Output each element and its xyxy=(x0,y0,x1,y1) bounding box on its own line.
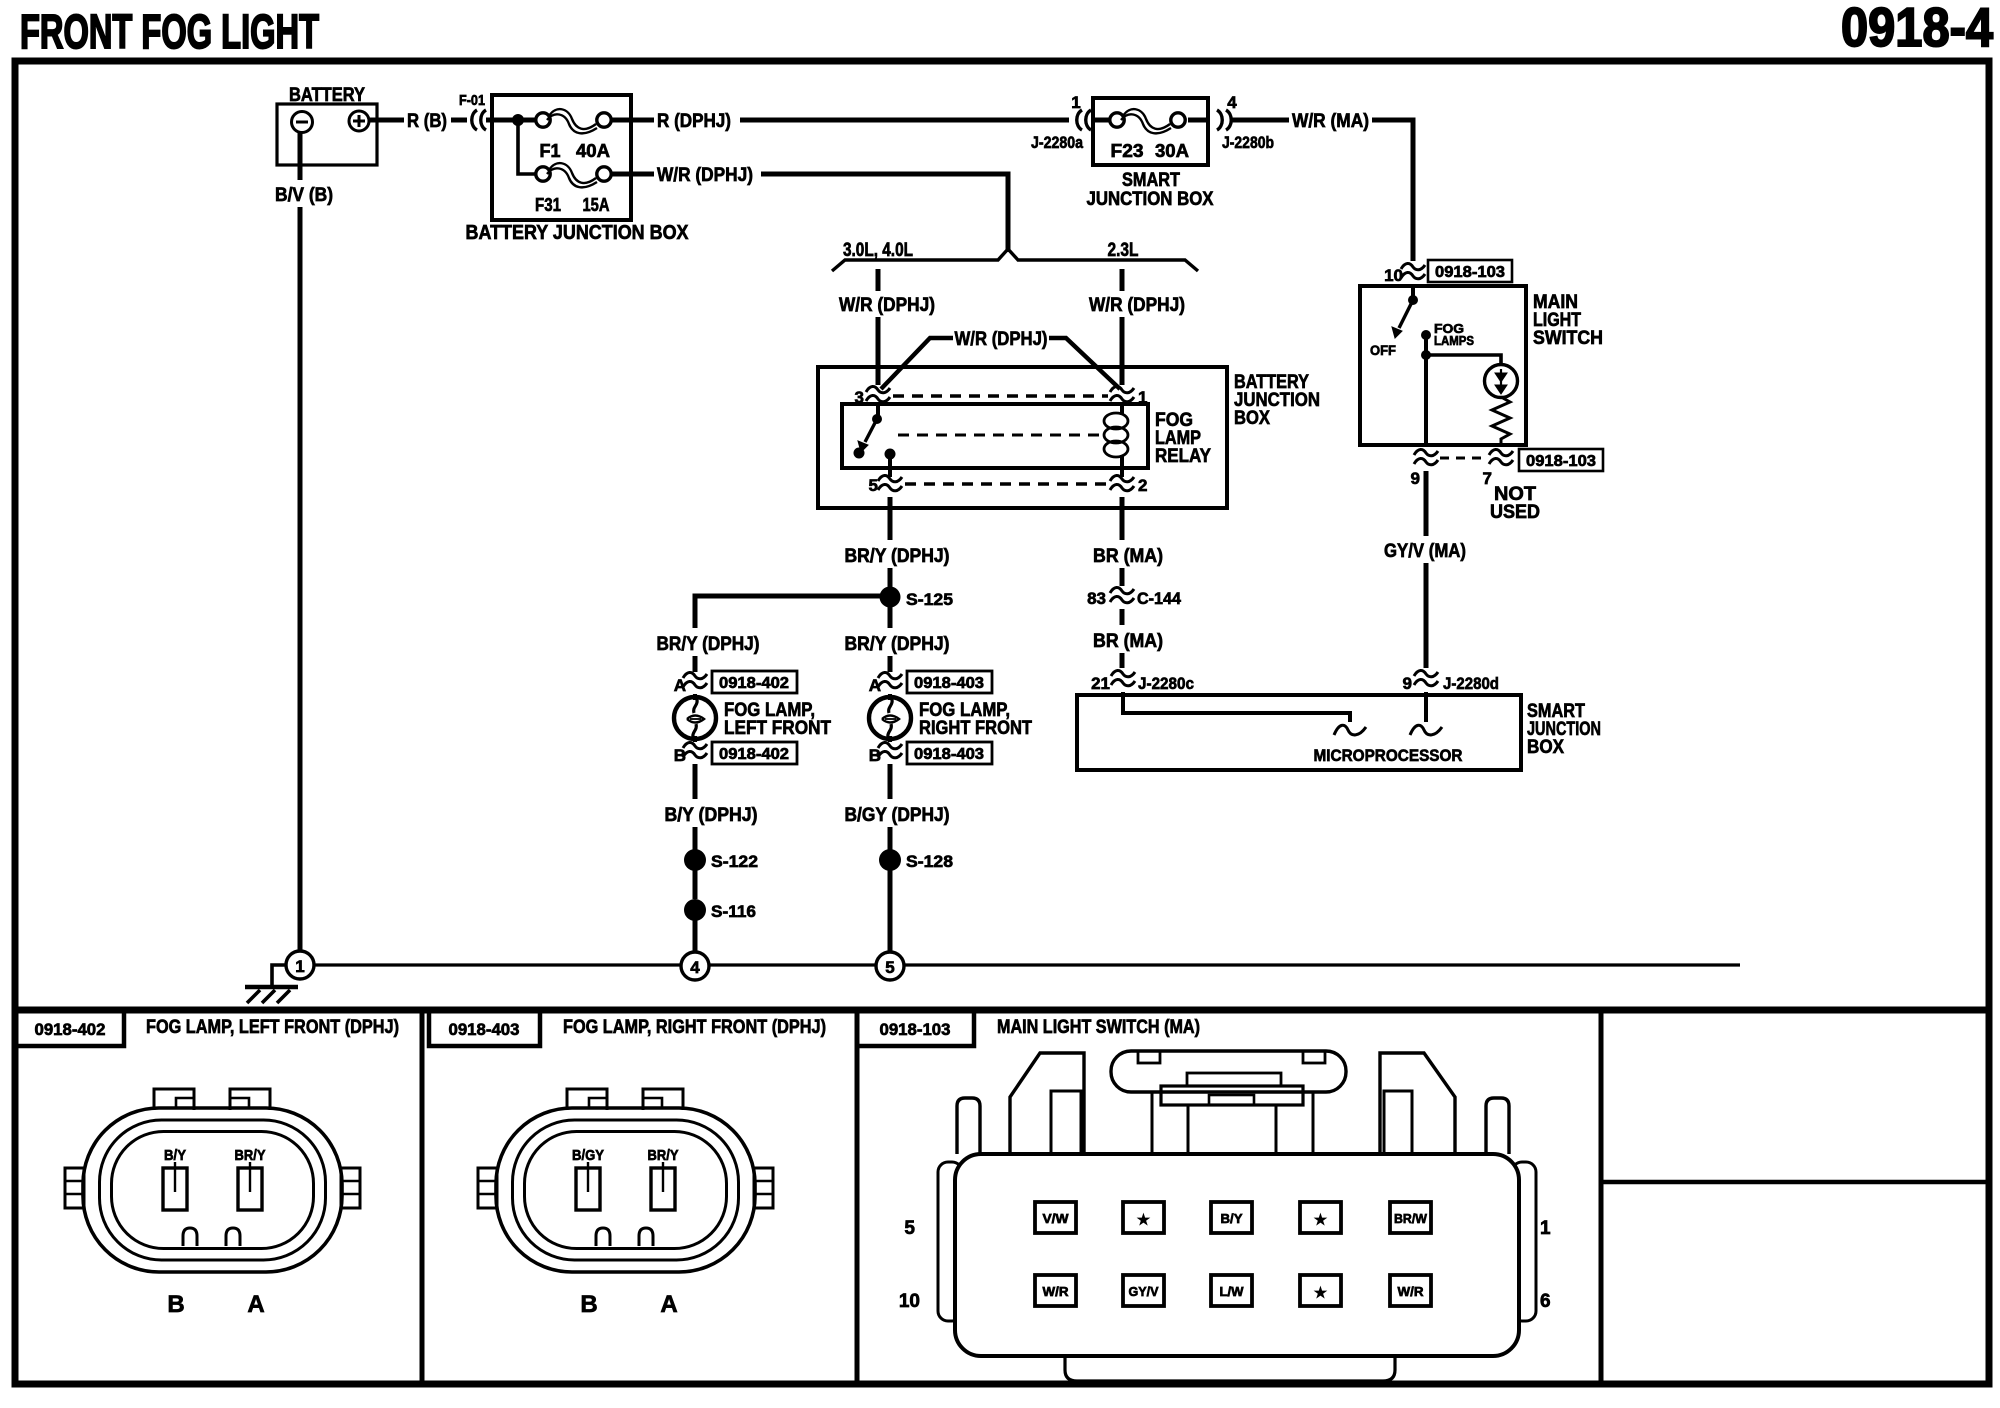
svg-text:0918-403: 0918-403 xyxy=(914,746,984,763)
wire into smart junction box xyxy=(1424,692,1428,722)
section header 0918-103 xyxy=(857,1010,1200,1046)
svg-text:★: ★ xyxy=(1315,1285,1327,1300)
relay pin 5 xyxy=(869,475,902,495)
svg-text:0918-4: 0918-4 xyxy=(1841,0,1993,58)
svg-text:FOG LAMP, RIGHT FRONT (DPHJ): FOG LAMP, RIGHT FRONT (DPHJ) xyxy=(563,1017,826,1038)
wire to S-116 xyxy=(693,870,698,899)
left fog lamp pin B xyxy=(674,742,707,765)
svg-text:5: 5 xyxy=(869,476,878,495)
svg-text:LAMPS: LAMPS xyxy=(1434,333,1474,348)
svg-text:OFF: OFF xyxy=(1370,342,1396,358)
ground node 5 xyxy=(876,952,904,980)
svg-text:BR/Y: BR/Y xyxy=(235,1147,266,1164)
svg-text:★: ★ xyxy=(1138,1212,1150,1227)
microprocessor input curl right xyxy=(1410,725,1442,735)
wire below C-144 xyxy=(1120,609,1125,625)
svg-text:0918-403: 0918-403 xyxy=(449,1020,520,1039)
svg-text:0918-103: 0918-103 xyxy=(1526,453,1596,470)
wire BR (MA) into box routed to microprocessor xyxy=(1123,692,1350,722)
wire 3.0L branch down xyxy=(876,269,881,291)
svg-text:9: 9 xyxy=(1411,469,1420,488)
wire fuse F1 to box edge xyxy=(610,118,654,123)
smart junction box microprocessor xyxy=(1077,695,1601,770)
connector J-2280d pin 9 xyxy=(1403,670,1499,693)
svg-text:A: A xyxy=(660,1291,677,1318)
wire to ground 4 xyxy=(693,920,698,953)
svg-text:S-116: S-116 xyxy=(711,902,756,921)
wire coil to pin 2 xyxy=(1120,455,1124,477)
dashed line pin5 to pin2 xyxy=(905,482,1108,486)
svg-text:BR/Y (DPHJ): BR/Y (DPHJ) xyxy=(845,634,950,655)
svg-text:BOX: BOX xyxy=(1234,408,1270,429)
relay coil xyxy=(1104,413,1128,457)
dashed line pin3 to pin1 xyxy=(893,394,1108,398)
indicator lamp in switch xyxy=(1485,365,1518,398)
svg-text:5: 5 xyxy=(885,958,894,977)
connector fog lamp right front xyxy=(478,1089,773,1272)
wire inside BJB to fuse F1 xyxy=(494,118,536,123)
svg-text:BR/Y: BR/Y xyxy=(648,1147,679,1164)
svg-text:B: B xyxy=(580,1291,597,1318)
wire to left lamp pin A xyxy=(693,656,698,672)
fog lamp relay box xyxy=(842,404,1211,468)
connector F-01 xyxy=(459,92,486,130)
wire 2.3L branch down xyxy=(1120,269,1125,291)
svg-text:10: 10 xyxy=(1384,266,1403,285)
relay pin 2 xyxy=(1110,475,1147,495)
battery junction box xyxy=(466,95,690,244)
battery negative wire down left side xyxy=(298,133,303,180)
connector pin 9 below switch xyxy=(1411,449,1438,488)
svg-text:B/Y: B/Y xyxy=(164,1147,186,1164)
wire pin3 into relay xyxy=(876,406,880,419)
ground node 4 xyxy=(681,952,709,980)
wire R(B) to connector F-01 xyxy=(451,118,467,123)
svg-text:L/W: L/W xyxy=(1220,1284,1245,1299)
svg-text:SWITCH: SWITCH xyxy=(1533,328,1603,349)
svg-text:1: 1 xyxy=(1540,1218,1551,1239)
svg-text:B/GY (DPHJ): B/GY (DPHJ) xyxy=(845,805,950,826)
svg-text:F31: F31 xyxy=(535,195,561,215)
svg-text:BR/W: BR/W xyxy=(1394,1211,1428,1226)
svg-text:4: 4 xyxy=(1227,93,1237,112)
svg-text:40A: 40A xyxy=(576,141,610,161)
svg-text:GY/V (MA): GY/V (MA) xyxy=(1384,541,1466,562)
svg-text:USED: USED xyxy=(1490,502,1540,523)
svg-text:0918-402: 0918-402 xyxy=(35,1020,106,1039)
relay pin 1 xyxy=(1110,386,1147,407)
wire W/R (MA) to main light switch xyxy=(1372,120,1413,261)
svg-text:FOG LAMP, LEFT FRONT (DPHJ): FOG LAMP, LEFT FRONT (DPHJ) xyxy=(146,1017,399,1038)
reference label 0918-402 upper xyxy=(712,671,797,693)
node junction in BJB xyxy=(512,114,524,126)
svg-text:A: A xyxy=(247,1291,264,1318)
wire fuse F31 to box edge xyxy=(610,172,654,177)
battery xyxy=(277,85,377,165)
dashed link pin9 to pin7 xyxy=(1440,457,1487,460)
wire branch to lamp xyxy=(1426,355,1501,364)
svg-text:0918-103: 0918-103 xyxy=(1435,264,1505,281)
main light switch box xyxy=(1360,286,1603,445)
svg-text:6: 6 xyxy=(1540,1291,1551,1312)
svg-text:W/R (DPHJ): W/R (DPHJ) xyxy=(955,329,1048,350)
reference label 0918-403 upper xyxy=(907,671,992,693)
wire branch left to left fog lamp column xyxy=(695,596,890,628)
wire R (DPHJ) run to smart junction box xyxy=(740,118,1069,123)
svg-text:C-144: C-144 xyxy=(1137,589,1182,608)
connector pin cavities row 2 xyxy=(899,1275,1551,1312)
wire fog lamps contact down through box xyxy=(1424,335,1428,447)
ground node 1 xyxy=(286,951,314,979)
svg-text:B/V (B): B/V (B) xyxy=(275,185,333,206)
svg-text:S-122: S-122 xyxy=(711,852,758,871)
connector pin cavities row 1 xyxy=(904,1202,1551,1239)
svg-text:BATTERY JUNCTION BOX: BATTERY JUNCTION BOX xyxy=(466,222,690,244)
svg-text:3.0L, 4.0L: 3.0L, 4.0L xyxy=(843,240,913,261)
wire to J-2280c xyxy=(1120,653,1125,668)
connector main light switch body xyxy=(938,1051,1536,1381)
svg-text:B: B xyxy=(167,1291,184,1318)
svg-text:W/R (DPHJ): W/R (DPHJ) xyxy=(1089,295,1185,316)
wire pin5 down out of box xyxy=(888,497,893,540)
FOG LAMPS contact xyxy=(1421,321,1474,348)
connector J-2280c pin 21 xyxy=(1091,670,1194,693)
wire pin 9 down xyxy=(1424,471,1429,536)
svg-text:BR/Y (DPHJ): BR/Y (DPHJ) xyxy=(845,546,950,567)
node branch to indicator lamp xyxy=(1421,350,1431,360)
svg-text:4: 4 xyxy=(690,958,700,977)
svg-text:2: 2 xyxy=(1138,476,1147,495)
svg-text:2.3L: 2.3L xyxy=(1108,240,1139,261)
svg-text:JUNCTION BOX: JUNCTION BOX xyxy=(1087,189,1214,210)
svg-text:W/R: W/R xyxy=(1398,1284,1425,1299)
svg-text:V/W: V/W xyxy=(1043,1211,1070,1226)
svg-text:J-2280b: J-2280b xyxy=(1222,133,1274,152)
title xyxy=(20,0,1993,59)
svg-text:BR (MA): BR (MA) xyxy=(1093,546,1163,567)
svg-text:W/R: W/R xyxy=(1043,1284,1070,1299)
svg-text:F23: F23 xyxy=(1111,141,1144,161)
svg-text:7: 7 xyxy=(1483,469,1492,488)
svg-text:10: 10 xyxy=(899,1291,920,1312)
svg-text:J-2280c: J-2280c xyxy=(1138,674,1194,693)
wire pin10 to switch pivot xyxy=(1411,284,1415,299)
wire lamp B down xyxy=(888,764,893,799)
wire into fuse F23 xyxy=(1093,118,1110,123)
wire B/V down to ground 1 xyxy=(298,207,303,951)
wire to S-122 xyxy=(693,827,698,850)
common W/R (DPHJ) callout xyxy=(881,329,1120,389)
splice S-125 xyxy=(880,587,954,610)
svg-text:LEFT FRONT: LEFT FRONT xyxy=(724,718,831,739)
svg-text:MAIN LIGHT SWITCH (MA): MAIN LIGHT SWITCH (MA) xyxy=(997,1017,1200,1038)
wire continues to relay pin 3 xyxy=(876,317,881,385)
resistor in switch xyxy=(1492,397,1510,445)
connector pin 10 into main light switch xyxy=(1384,263,1425,285)
svg-text:J-2280a: J-2280a xyxy=(1031,133,1083,152)
svg-text:0918-403: 0918-403 xyxy=(914,675,984,692)
svg-text:5: 5 xyxy=(904,1218,915,1239)
svg-text:W/R (MA): W/R (MA) xyxy=(1292,111,1369,132)
splice S-122 xyxy=(684,849,758,871)
wire to right lamp pin A xyxy=(888,656,893,672)
connector fog lamp left front xyxy=(65,1089,360,1272)
engine split brace xyxy=(832,249,1198,271)
wire GY/V down to smart junction box xyxy=(1424,563,1429,668)
svg-text:★: ★ xyxy=(1315,1212,1327,1227)
wire pin2 down out of box xyxy=(1120,497,1125,540)
fog lamp left front xyxy=(674,694,716,742)
svg-text:RELAY: RELAY xyxy=(1155,446,1211,467)
reference label 0918-103 bottom xyxy=(1519,449,1603,471)
svg-text:15A: 15A xyxy=(583,195,610,215)
wire lamp B down xyxy=(693,764,698,799)
svg-text:9: 9 xyxy=(1403,674,1412,693)
svg-text:F1: F1 xyxy=(539,141,560,161)
wire to S-128 xyxy=(888,827,893,850)
svg-text:1: 1 xyxy=(295,957,304,976)
wire S-125 down right lamp xyxy=(888,607,893,628)
svg-text:SMART: SMART xyxy=(1122,170,1180,191)
svg-text:S-128: S-128 xyxy=(906,852,953,871)
pin labels left connector xyxy=(164,1147,266,1318)
relay switch contact xyxy=(854,414,896,460)
wire to splice S-125 xyxy=(888,568,893,596)
fuse F23 30A xyxy=(1110,109,1189,161)
switch lever in main light switch xyxy=(1392,295,1418,338)
svg-text:B/Y (DPHJ): B/Y (DPHJ) xyxy=(665,805,758,826)
svg-text:21: 21 xyxy=(1091,674,1110,693)
connector C-144 pin 83 xyxy=(1087,587,1181,608)
relay pin 3 xyxy=(855,386,890,407)
microprocessor input curl left xyxy=(1334,725,1366,735)
svg-text:0918-402: 0918-402 xyxy=(719,675,789,692)
connector pin 7 not used xyxy=(1483,449,1513,488)
wire battery positive to R (B) xyxy=(369,118,404,123)
wire continues to relay pin 1 xyxy=(1120,317,1125,385)
connector J-2280a pin 1 xyxy=(1031,93,1091,152)
wire contact to pin 5 xyxy=(888,454,892,477)
fuse F31 15A xyxy=(535,163,611,215)
svg-text:BR/Y (DPHJ): BR/Y (DPHJ) xyxy=(657,634,760,655)
wire pin1 into relay to coil xyxy=(1120,406,1124,415)
right fog lamp pin A xyxy=(869,672,902,695)
connector J-2280b pin 4 xyxy=(1217,93,1274,152)
wire to C-144 xyxy=(1120,568,1125,586)
svg-text:W/R (DPHJ): W/R (DPHJ) xyxy=(657,165,753,186)
svg-text:30A: 30A xyxy=(1155,141,1189,161)
svg-text:0918-103: 0918-103 xyxy=(880,1020,951,1039)
svg-text:83: 83 xyxy=(1087,589,1106,608)
pin labels right connector xyxy=(572,1147,679,1318)
svg-text:S-125: S-125 xyxy=(906,590,953,609)
svg-text:RIGHT FRONT: RIGHT FRONT xyxy=(919,718,1032,739)
reference label 0918-402 lower xyxy=(712,742,797,764)
reference label 0918-403 lower xyxy=(907,742,992,764)
splice S-128 xyxy=(879,849,953,871)
svg-text:GY/V: GY/V xyxy=(1129,1284,1159,1299)
splice S-116 xyxy=(684,899,756,921)
svg-text:0918-402: 0918-402 xyxy=(719,746,789,763)
svg-text:BR (MA): BR (MA) xyxy=(1093,631,1163,652)
svg-text:FRONT FOG LIGHT: FRONT FOG LIGHT xyxy=(20,6,319,59)
svg-text:BOX: BOX xyxy=(1527,737,1564,758)
fuse F1 40A xyxy=(536,109,611,161)
wire fuse F23 to box edge xyxy=(1188,118,1208,123)
svg-text:B/GY: B/GY xyxy=(572,1147,604,1164)
dashed actuation link to coil xyxy=(898,434,1100,437)
NOT USED label xyxy=(1490,484,1540,523)
battery junction box (relay housing) xyxy=(818,367,1320,508)
svg-text:MICROPROCESSOR: MICROPROCESSOR xyxy=(1314,746,1463,765)
wire to W/R (MA) label xyxy=(1232,118,1289,123)
section header 0918-403 xyxy=(429,1010,826,1046)
wire W/R (DPHJ) run to engine split xyxy=(761,174,1008,252)
reference label 0918-103 top xyxy=(1428,260,1512,282)
wire junction down to fuse F31 xyxy=(518,120,536,174)
smart junction box (fuse) xyxy=(1087,98,1214,210)
svg-text:B/Y: B/Y xyxy=(1221,1211,1243,1226)
svg-text:F-01: F-01 xyxy=(459,92,485,109)
right fog lamp pin B xyxy=(869,742,902,765)
left fog lamp pin A xyxy=(674,672,707,695)
section header 0918-402 xyxy=(16,1010,399,1046)
svg-text:J-2280d: J-2280d xyxy=(1443,674,1499,693)
ground bus wire xyxy=(313,963,1740,966)
svg-text:R (DPHJ): R (DPHJ) xyxy=(657,111,731,132)
wire to ground 5 xyxy=(888,870,893,953)
fog lamp right front xyxy=(869,694,911,742)
svg-text:W/R (DPHJ): W/R (DPHJ) xyxy=(839,295,935,316)
wire F-01 to battery junction box xyxy=(486,118,494,123)
svg-text:1: 1 xyxy=(1071,93,1080,112)
ground symbol xyxy=(245,965,298,1003)
svg-text:R (B): R (B) xyxy=(407,111,447,132)
